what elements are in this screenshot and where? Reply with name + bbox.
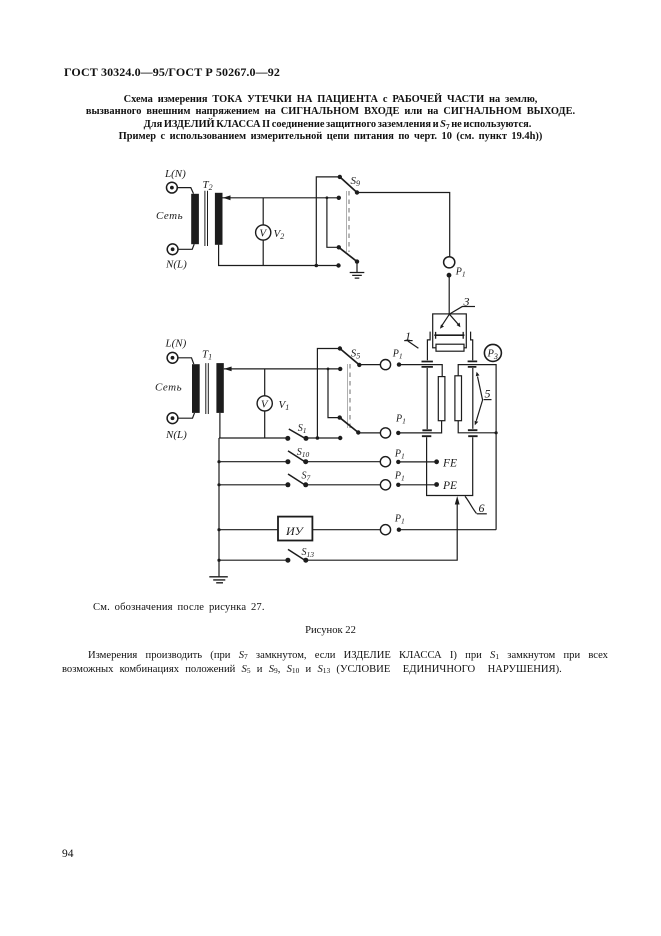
wire S1 to S5 contact B [306, 437, 340, 439]
label 1 leader [408, 341, 419, 348]
applied part block [436, 344, 464, 351]
wire S7 to P1d [306, 484, 381, 486]
arrow tap on T2 secondary [223, 195, 231, 200]
voltmeter V1 stem [264, 369, 266, 438]
svg-text:L(N): L(N) [165, 338, 187, 350]
figure caption [0, 625, 661, 636]
running head ГОСТ [64, 65, 280, 80]
voltmeter V2 stem [262, 198, 264, 266]
wire S5 pole F to P1b [358, 432, 380, 434]
label 3 [463, 295, 470, 309]
wire S13 to enclosure arrow [306, 502, 457, 560]
measuring point P1b [380, 428, 390, 438]
svg-text:P1: P1 [392, 349, 403, 361]
node after P1c [396, 460, 400, 464]
svg-text:S7: S7 [302, 471, 311, 483]
wire S10 to P1c [306, 461, 381, 463]
insulation barrier R2 [455, 376, 462, 421]
arrow to enclosure bottom [455, 496, 460, 505]
electrode bar [434, 334, 464, 336]
transformer T2 core [205, 191, 208, 246]
svg-text:V1: V1 [279, 399, 290, 412]
wire T1 bottom row [219, 437, 288, 439]
voltmeter V1 [257, 396, 272, 411]
right upper plug plates [468, 361, 478, 367]
wire T2 secondary bottom [219, 245, 339, 266]
junction [326, 196, 329, 199]
svg-text:FE: FE [442, 458, 457, 470]
node after P1b [396, 431, 400, 435]
wire terminal L(N) to T2 primary [177, 188, 193, 194]
S9 contact A [338, 175, 342, 179]
S13 left contact [285, 558, 290, 563]
svg-text:P1: P1 [394, 471, 405, 483]
svg-text:P1: P1 [455, 267, 466, 279]
ground at S9 [356, 262, 358, 273]
node after P1e [397, 528, 401, 532]
transformer T2 primary winding [191, 194, 199, 244]
svg-text:N(L): N(L) [165, 259, 187, 271]
terminal L(N) lower [167, 352, 178, 363]
wire rail to S7 [219, 484, 288, 486]
label 3 leader [450, 306, 463, 314]
measuring point P1 upper [444, 257, 455, 268]
transformer T1 primary winding [192, 364, 200, 413]
wire S5 pole E to P1a [359, 364, 380, 366]
S13 right contact [303, 558, 308, 563]
FE node [434, 459, 439, 464]
svg-text:P3: P3 [487, 349, 498, 362]
wire T1 secondary top to S5 [224, 368, 340, 370]
junction [495, 431, 498, 434]
svg-text:S13: S13 [302, 547, 315, 559]
node after P1d [396, 483, 400, 487]
S9 outer bracket wire [316, 177, 340, 266]
svg-text:P1: P1 [395, 414, 406, 426]
S9 pole E [355, 190, 359, 194]
svg-text:V2: V2 [274, 228, 285, 241]
wire P1d to PE [398, 484, 436, 486]
measuring device box [278, 517, 312, 541]
svg-text:6: 6 [479, 501, 485, 515]
label 6 [479, 501, 485, 515]
svg-text:P1: P1 [394, 449, 405, 461]
terminal N(L) lower [167, 413, 178, 424]
label 1 [405, 329, 411, 343]
wire terminal to T1 primary [178, 358, 194, 364]
transformer T2 secondary winding [215, 193, 223, 245]
S9 coupling link [346, 191, 348, 252]
wire terminal N(L) to T2 primary [178, 244, 194, 249]
left rail from T1 secondary to ground [218, 413, 221, 577]
S9 pole F [355, 259, 359, 263]
arrow right inside box 3 [449, 314, 458, 325]
wire device to P1e [312, 529, 380, 531]
transformer T1 secondary winding [216, 363, 223, 413]
S5 pole E [357, 363, 361, 367]
left upper plug plates [422, 362, 433, 367]
S9 contact D [337, 245, 341, 249]
node after P1a [397, 362, 401, 366]
S9 inner bracket wire [327, 198, 339, 248]
wire signal circuit top: R2 to right rail [458, 365, 496, 530]
junction [316, 436, 320, 440]
wire P1b cord to insulation R1 bottom [398, 421, 441, 433]
wire P1a cord to insulation R1 top [399, 365, 442, 377]
box 6 [427, 437, 473, 495]
svg-text:Сеть: Сеть [156, 210, 183, 222]
label 5 [485, 387, 491, 401]
svg-text:ИУ: ИУ [285, 524, 305, 538]
svg-text:5: 5 [485, 387, 491, 401]
S10 blade [288, 451, 305, 462]
body paragraph [62, 649, 608, 677]
S9 contact B [336, 263, 340, 267]
wire rail to S13 [219, 559, 288, 561]
measuring point P1c [380, 457, 390, 467]
wire terminal to T1 primary [178, 413, 195, 418]
ground at left rail bottom [209, 577, 228, 583]
S5 contact B [338, 436, 342, 440]
junction [327, 368, 330, 371]
insulation barrier R1 [438, 377, 445, 421]
label 6 leader [465, 496, 477, 513]
S9 upper blade [340, 177, 357, 193]
svg-text:S9: S9 [351, 175, 361, 188]
transformer T1 core [206, 363, 209, 414]
wire P1 down to radiation box [448, 275, 450, 314]
junction [217, 460, 220, 463]
svg-text:V: V [261, 399, 269, 411]
wire P1e to right rail [399, 529, 496, 531]
see-note line [93, 602, 265, 613]
right contact hook [471, 332, 473, 361]
S1 right contact [304, 436, 309, 441]
svg-text:P1: P1 [394, 514, 405, 526]
S5 coupling link [347, 364, 349, 428]
S7 left contact [285, 482, 290, 487]
wire T2 secondary top to S9 [223, 197, 339, 199]
radiation box (3) [433, 314, 467, 348]
S5 lower blade [340, 418, 359, 433]
S7 blade [288, 474, 305, 485]
S5 inner bracket wire [328, 369, 340, 418]
svg-text:PE: PE [442, 480, 457, 492]
measuring point P3 [484, 344, 501, 361]
S5 contact D [338, 415, 342, 419]
svg-text:Сеть: Сеть [155, 382, 182, 394]
wire rail to measuring device [219, 529, 278, 531]
wire rail to S10 [219, 461, 288, 463]
left lower plug plates [422, 430, 432, 436]
junction [217, 559, 220, 562]
svg-text:S1: S1 [298, 423, 307, 435]
S5 contact C [338, 367, 342, 371]
measuring point P1e [380, 525, 390, 535]
wire P1c to FE [398, 461, 436, 463]
S9 lower blade [339, 247, 357, 261]
left rail mid [426, 368, 428, 429]
figure title block [0, 94, 661, 144]
arrow tap on T1 secondary [224, 367, 232, 372]
S5 pole F [356, 430, 360, 434]
page number [62, 848, 74, 860]
junction [217, 483, 220, 486]
PE node [434, 482, 439, 487]
svg-text:N(L): N(L) [165, 429, 187, 441]
wire signal circuit bottom: R2 to right rail [458, 421, 496, 433]
S10 right contact [303, 459, 308, 464]
S13 blade [288, 549, 305, 560]
svg-text:L(N): L(N) [164, 168, 186, 180]
terminal L(N) upper [167, 182, 178, 193]
S5 outer bracket wire [317, 349, 340, 439]
svg-text:T2: T2 [203, 179, 213, 192]
S7 right contact [303, 482, 308, 487]
right lower plug plates [468, 430, 478, 436]
S5 contact A [338, 346, 342, 350]
terminal N(L) upper [167, 244, 178, 255]
svg-text:S5: S5 [351, 348, 361, 361]
wire S9 pole E to P1 [357, 193, 450, 257]
svg-text:T1: T1 [202, 349, 212, 362]
label 5 arrows [478, 377, 483, 401]
node after P1 upper [447, 273, 452, 278]
S1 blade [289, 429, 305, 438]
right rail mid [472, 368, 474, 429]
measuring point P1d [380, 480, 390, 490]
voltmeter V2 [256, 225, 271, 240]
S10 left contact [285, 459, 290, 464]
arrow left inside box 3 [442, 314, 450, 326]
S9 contact C [337, 196, 341, 200]
svg-text:S10: S10 [297, 447, 310, 459]
measuring point P1a [380, 360, 390, 370]
S5 upper blade [340, 349, 359, 365]
S1 left contact [285, 436, 290, 441]
left contact hook [427, 332, 430, 361]
svg-text:V: V [259, 228, 267, 240]
junction [315, 264, 319, 268]
junction [217, 528, 220, 531]
